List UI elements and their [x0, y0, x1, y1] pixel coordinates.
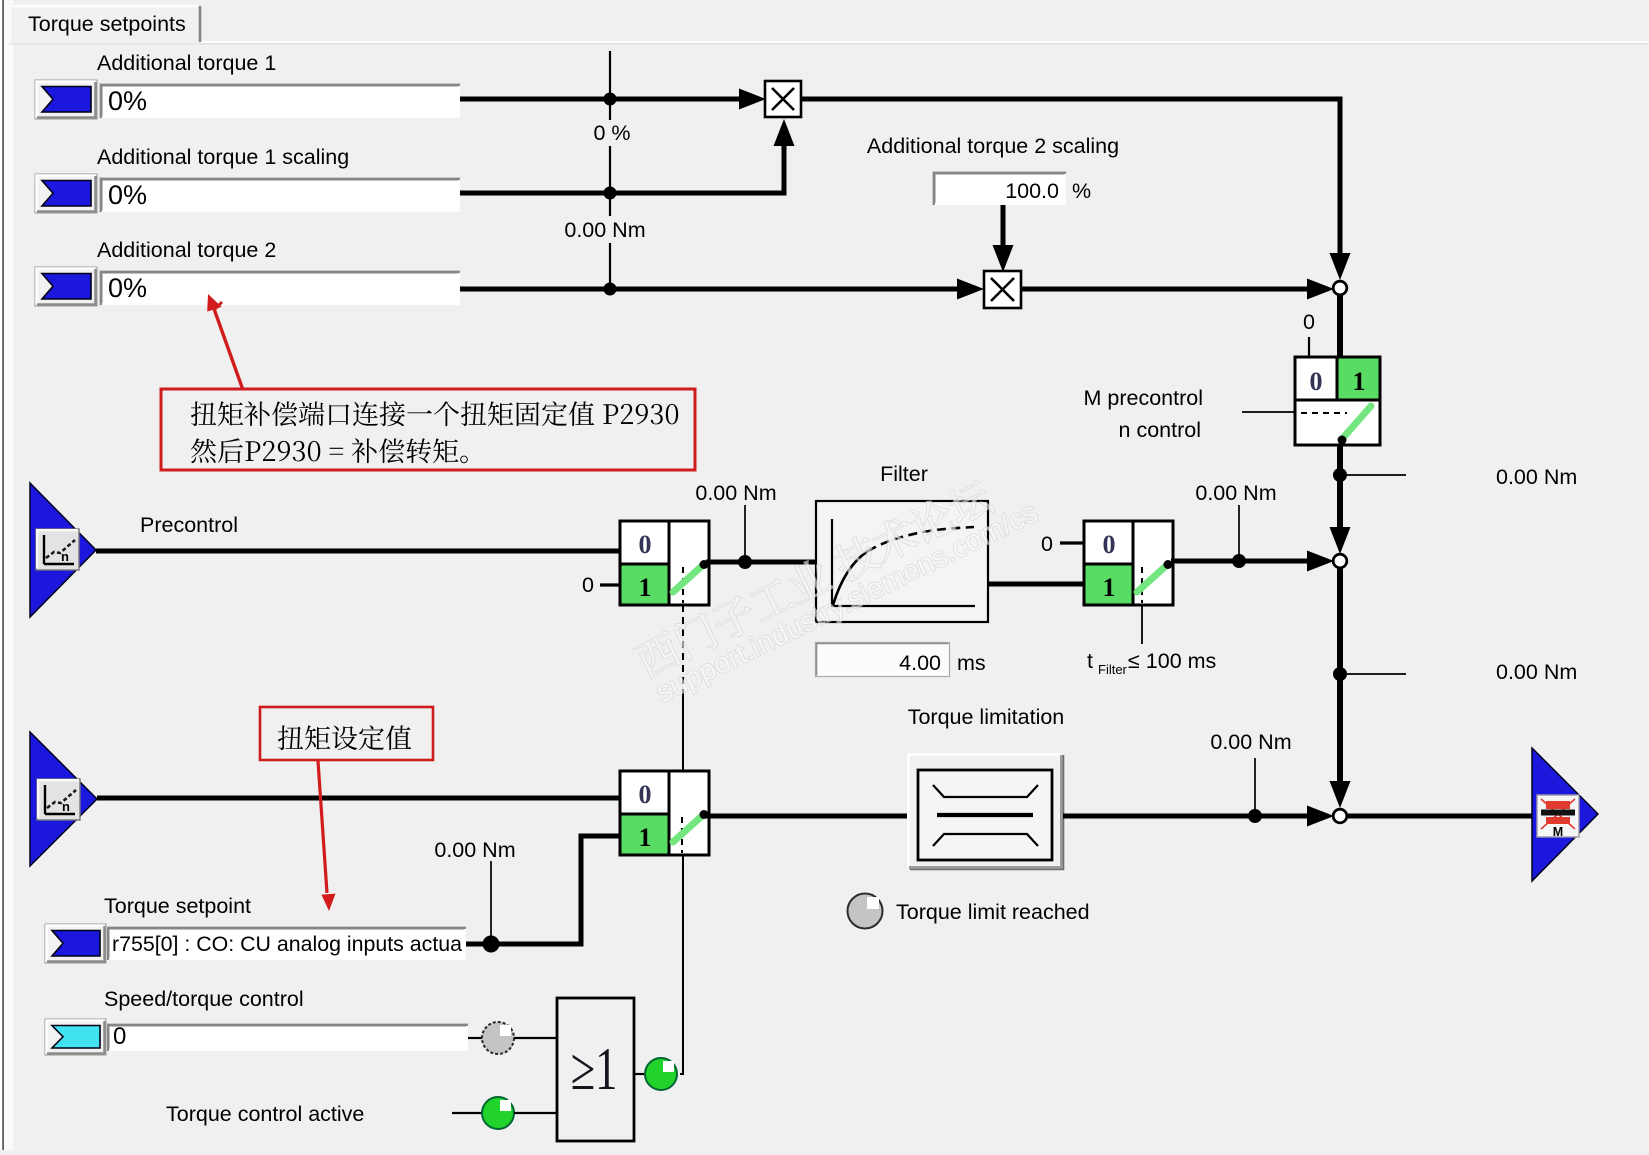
label Torque limitation — [908, 705, 1065, 729]
svg-text:0%: 0% — [108, 180, 147, 210]
svg-text:1: 1 — [639, 823, 652, 852]
label Speed/torque control — [104, 987, 304, 1011]
value field Additional torque 2 (0%) — [100, 271, 461, 306]
svg-text:0: 0 — [1310, 367, 1323, 396]
monitor stub right of dot — [1347, 474, 1406, 476]
wire limiter to summing node C — [1063, 814, 1311, 819]
label t Filter <= 100 ms — [1087, 649, 1216, 677]
svg-text:Additional torque 1: Additional torque 1 — [97, 51, 276, 75]
monitor stub right of dot 2 — [1347, 673, 1406, 675]
arrow up into multiplier X1 — [774, 119, 795, 146]
status ball torque control active (green) — [482, 1097, 514, 1129]
multiplier X2 — [984, 271, 1021, 308]
svg-text:0: 0 — [639, 780, 652, 809]
input connector button (Torque setpoint) — [45, 924, 106, 963]
svg-text:Torque limitation: Torque limitation — [908, 705, 1065, 729]
annotation text box 2 — [278, 725, 411, 750]
wire Torque setpoint to switch S4 — [97, 796, 620, 801]
wire row3 multiplier X2 to summing node A — [1021, 287, 1309, 292]
input connector Precontrol (blue triangle) — [30, 483, 96, 617]
label 0 constant at S2 — [582, 573, 594, 597]
svg-text:0 %: 0 % — [593, 121, 630, 145]
svg-text:0%: 0% — [108, 273, 147, 303]
input connector Torque setpoint (blue triangle) — [30, 732, 97, 866]
summing node C — [1333, 809, 1347, 823]
switch S2 — [620, 521, 709, 605]
svg-text:Filter: Filter — [880, 462, 928, 486]
svg-text:0: 0 — [1303, 310, 1315, 334]
stub 0-input of S2 — [600, 583, 620, 586]
arrow into summing node A from left — [1307, 279, 1334, 300]
window left border — [0, 0, 14, 1150]
label 0 above switch S1 — [1303, 310, 1315, 334]
wire row1 multiplier to trunk corner, down to summing node — [799, 99, 1340, 255]
red annotation box 1 — [161, 389, 695, 470]
junction dot row2 — [604, 187, 617, 200]
stub 0-input of S3 — [1060, 541, 1084, 544]
label n control — [1119, 418, 1201, 442]
unit label % — [1072, 179, 1091, 203]
svg-text:r755[0] : CO: CU analog inputs: r755[0] : CO: CU analog inputs actua — [112, 933, 462, 956]
value field r755 — [107, 927, 467, 961]
wire S2 output to filter — [706, 560, 818, 565]
tab Torque setpoints — [10, 4, 201, 44]
wire switch S1 output down — [1337, 445, 1343, 529]
arrow into summing node B from left — [1307, 551, 1334, 572]
label Additional torque 2 — [97, 238, 276, 262]
junction dot after S3 — [1232, 554, 1246, 568]
value field 4.00 ms — [816, 643, 950, 677]
arrow down into summing node A — [1330, 253, 1351, 280]
switch S1 box — [1295, 357, 1380, 445]
select stub below S3 — [1141, 605, 1143, 644]
red arrow to Additional torque 2 field — [207, 294, 243, 390]
label Additional torque 2 scaling — [867, 134, 1119, 158]
svg-text:0: 0 — [1103, 530, 1116, 559]
select line into switch S1 — [1242, 411, 1295, 413]
label Additional torque 1 scaling — [97, 145, 349, 169]
svg-text:Precontrol: Precontrol — [140, 513, 238, 537]
wire OR gate to output ball — [634, 1073, 646, 1075]
value field Speed/torque control (0) — [107, 1023, 469, 1052]
wire row1 from field to multiplier — [460, 97, 741, 102]
status ball OR output (green) — [645, 1058, 677, 1090]
monitor line above dot limiter — [1254, 758, 1256, 812]
wire gray ball to OR gate — [514, 1037, 558, 1039]
svg-text:0: 0 — [1041, 532, 1053, 556]
wire S3 output to summing node B — [1171, 559, 1311, 564]
label Torque setpoint — [104, 894, 251, 918]
svg-text:M: M — [1553, 825, 1563, 839]
svg-text:Torque control active: Torque control active — [166, 1102, 364, 1126]
input connector button (Additional torque 2) — [35, 267, 97, 306]
svg-text:≤ 100 ms: ≤ 100 ms — [1128, 649, 1216, 673]
svg-text:M precontrol: M precontrol — [1084, 386, 1204, 410]
wire row3 to multiplier X2 — [460, 287, 959, 292]
svg-text:0: 0 — [582, 573, 594, 597]
junction dot row3 — [604, 283, 617, 296]
svg-text:0: 0 — [639, 530, 652, 559]
label Torque limit reached — [896, 900, 1090, 924]
input connector button (Additional torque 1) — [35, 80, 97, 119]
status ball speed/torque (gray) — [482, 1022, 514, 1054]
arrow down into summing node B — [1330, 527, 1351, 554]
svg-text:0.00 Nm: 0.00 Nm — [1496, 660, 1577, 684]
svg-text:0.00 Nm: 0.00 Nm — [434, 838, 515, 862]
svg-text:ms: ms — [957, 651, 986, 675]
red arrow to r755 field — [318, 761, 336, 911]
red annotation box 2 — [260, 707, 433, 760]
wire field to gray ball — [468, 1037, 483, 1039]
value label 0.00 Nm before node C — [1210, 730, 1291, 754]
value label 0.00 Nm (rows) — [562, 216, 650, 243]
svg-text:0.00 Nm: 0.00 Nm — [564, 218, 645, 242]
summing node B — [1333, 554, 1347, 568]
svg-text:Speed/torque control: Speed/torque control — [104, 987, 304, 1011]
filter block U1 — [816, 501, 988, 622]
svg-text:n: n — [61, 549, 69, 564]
value label 0 % — [590, 120, 634, 146]
unit label ms — [957, 651, 986, 675]
tab pane top edge — [9, 41, 1649, 44]
arrow down into multiplier X2 — [993, 245, 1014, 272]
monitor line vertical — [609, 51, 611, 289]
wire node C to output connector — [1347, 814, 1534, 819]
input connector button (Additional torque 1 scaling) — [35, 174, 97, 213]
wire row2 to multiplier X1 bottom — [460, 146, 784, 193]
svg-text:0.00 Nm: 0.00 Nm — [1210, 730, 1291, 754]
wire trunk node A to switch S1 — [1337, 295, 1343, 358]
svg-text:Additional torque 1 scaling: Additional torque 1 scaling — [97, 145, 349, 169]
svg-text:%: % — [1072, 179, 1091, 203]
svg-text:1: 1 — [1103, 573, 1116, 602]
value field 100.0 % — [933, 172, 1067, 206]
svg-text:≥1: ≥1 — [571, 1037, 618, 1103]
junction dot after S2 — [738, 555, 752, 569]
wire r755 to switch S4 input 1 — [466, 836, 620, 944]
label M precontrol — [1084, 386, 1204, 410]
input connector button (Speed/torque control) — [45, 1019, 106, 1055]
svg-text:0.00 Nm: 0.00 Nm — [1496, 465, 1577, 489]
monitor line above dot S3 — [1238, 505, 1240, 557]
wire Precontrol to switch S2 — [96, 549, 620, 554]
switch S4 (speed/torque select) — [620, 771, 709, 855]
forum watermark — [632, 476, 1043, 709]
svg-text:Additional torque 2 scaling: Additional torque 2 scaling — [867, 134, 1119, 158]
svg-text:4.00: 4.00 — [899, 651, 941, 675]
value label 0.00 Nm right middle — [1496, 660, 1577, 684]
wire node B down to node C — [1337, 568, 1343, 782]
svg-text:Filter: Filter — [1098, 662, 1128, 677]
status ball Torque limit reached (gray) — [848, 894, 883, 929]
monitor line above dot — [744, 505, 746, 558]
junction dot on r755 wire — [483, 936, 500, 953]
junction dot below S1 — [1333, 468, 1347, 482]
label Torque control active — [166, 1102, 364, 1126]
arrow down into summing node C — [1330, 781, 1351, 808]
label Precontrol — [140, 513, 238, 537]
svg-text:Torque setpoint: Torque setpoint — [104, 894, 251, 918]
svg-text:Torque setpoints: Torque setpoints — [28, 12, 186, 36]
label Additional torque 1 — [97, 51, 276, 75]
junction dot between B and C — [1333, 667, 1347, 681]
arrow into multiplier X2 — [957, 279, 984, 300]
svg-text:0: 0 — [113, 1023, 126, 1050]
value label 0.00 Nm after S3 — [1195, 481, 1276, 505]
svg-text:Torque limit reached: Torque limit reached — [896, 900, 1090, 924]
arrow into multiplier X1 — [739, 89, 766, 110]
wire to green ball torque control — [452, 1112, 483, 1114]
monitor line above r755 dot — [490, 861, 492, 938]
stub 0-input of switch S1 — [1308, 337, 1310, 356]
svg-text:n: n — [62, 799, 70, 814]
svg-text:0.00 Nm: 0.00 Nm — [695, 481, 776, 505]
summing node A — [1333, 281, 1347, 295]
svg-text:0%: 0% — [108, 86, 147, 116]
value label 0.00 Nm after S2 — [695, 481, 776, 505]
select line from OR gate output up to switches — [680, 605, 684, 1074]
value field Additional torque 1 (0%) — [100, 84, 461, 119]
value label 0.00 Nm right top — [1496, 465, 1577, 489]
value label 0.00 Nm at r755 — [434, 838, 515, 862]
annotation text line 2 — [191, 438, 468, 463]
label 0 constant at S3 — [1041, 532, 1053, 556]
OR gate >=1 — [557, 998, 634, 1141]
svg-text:0.00 Nm: 0.00 Nm — [1195, 481, 1276, 505]
output connector M (blue triangle) — [1532, 748, 1598, 881]
junction dot after limiter — [1248, 809, 1262, 823]
wire green ball to OR gate — [514, 1112, 558, 1114]
svg-text:100.0: 100.0 — [1005, 179, 1059, 203]
svg-text:n control: n control — [1119, 418, 1201, 442]
svg-text:1: 1 — [1353, 367, 1366, 396]
svg-text:t: t — [1087, 649, 1093, 673]
multiplier X1 — [765, 81, 801, 117]
wire from scaling field down to multiplier X2 — [1001, 205, 1006, 248]
label Filter — [880, 462, 928, 486]
junction dot row1 — [604, 93, 617, 106]
torque limiter block U2 — [907, 753, 1064, 870]
wire filter to switch S3 — [988, 582, 1084, 587]
wire S4 output to torque limiter — [706, 814, 910, 819]
switch S3 — [1084, 521, 1173, 605]
svg-text:1: 1 — [639, 573, 652, 602]
arrow into summing node C from left — [1307, 806, 1334, 827]
annotation text line 1 — [191, 401, 678, 426]
svg-text:Additional torque 2: Additional torque 2 — [97, 238, 276, 262]
value field Additional torque 1 scaling (0%) — [100, 178, 461, 213]
